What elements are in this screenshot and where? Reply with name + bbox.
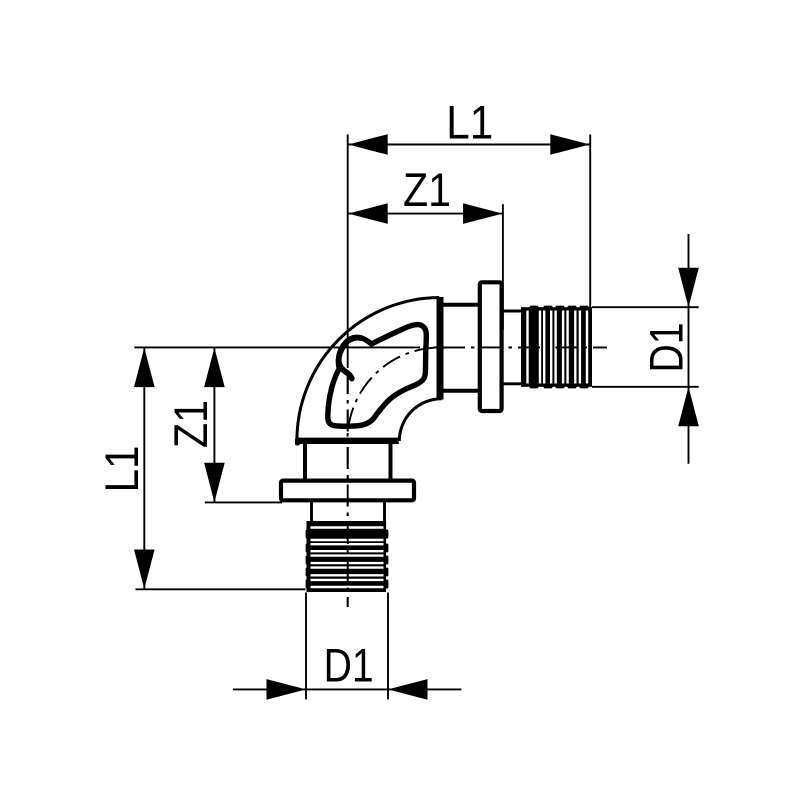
arrowhead Z1 left lower	[204, 463, 225, 503]
right branch neck top edge	[441, 303, 480, 307]
arrowhead L1 top left	[348, 134, 388, 155]
right branch smooth pipe top edge	[502, 310, 524, 313]
arrowhead L1 left upper	[134, 348, 155, 388]
centerline vertical redrawn over spigot slots	[347, 373, 349, 607]
vertical branch ribbed spigot	[306, 521, 389, 592]
arrowhead L1 top right	[550, 134, 590, 155]
vertical branch collar flange	[281, 481, 414, 501]
svg-text:Z1: Z1	[403, 163, 451, 216]
extension line, D1 right upper	[592, 306, 699, 308]
extension line, left (horizontal branch axis)	[134, 346, 420, 348]
centerline, bend axis arc (dash-dot)	[348, 348, 441, 441]
extension line, D1 bottom right	[387, 593, 389, 700]
dimension line Z1 top	[348, 213, 502, 215]
bottom face bar left end nub	[295, 438, 300, 446]
dimension line D1 right with leaders	[688, 234, 690, 464]
arrowhead D1 bottom left (outside)	[267, 679, 307, 700]
body cast recess contour (large)	[328, 325, 427, 427]
elbow body bottom face bar	[296, 438, 399, 444]
centerline, horizontal branch axis (dash-dot)	[426, 346, 607, 348]
vertical branch smooth pipe right edge	[383, 500, 386, 524]
centerline horizontal redrawn over spigot slots	[426, 346, 607, 348]
arrowhead Z1 top right	[463, 203, 503, 224]
extension line, bottom end of left Z1 (collar face)	[205, 501, 282, 503]
arrowhead D1 right upper (outside)	[678, 268, 699, 308]
arrowhead D1 right lower (outside)	[678, 387, 699, 427]
extension line, right end of top Z1 (collar face)	[502, 204, 504, 330]
right branch neck bottom edge	[441, 389, 480, 393]
dimension line Z1 left	[213, 348, 215, 503]
right branch ribbed spigot	[521, 306, 592, 389]
extension line, top left (above vertical branch axis)	[347, 135, 349, 369]
right branch collar flange	[480, 282, 502, 411]
body cast recess contour (small comma)	[339, 338, 361, 379]
extension line, bottom left end of L1 (pipe end)	[136, 588, 306, 590]
dimension line D1 bottom with leaders	[233, 688, 461, 690]
dimension line L1 left	[143, 348, 145, 589]
vertical branch smooth pipe left edge	[310, 500, 313, 524]
arrowhead L1 left lower	[134, 550, 155, 590]
svg-text:Z1: Z1	[164, 400, 217, 448]
elbow body inner corner arc	[399, 399, 441, 441]
elbow body outer arc	[297, 298, 439, 442]
arrowhead D1 bottom right (outside)	[388, 679, 428, 700]
extension line, D1 bottom left	[305, 593, 307, 700]
arrowhead Z1 top left	[348, 203, 388, 224]
svg-text:D1: D1	[324, 639, 374, 692]
svg-text:L1: L1	[446, 95, 493, 148]
extension line, top right end of L1 (pipe end)	[589, 135, 591, 312]
vertical branch neck right edge	[389, 444, 393, 481]
centerline, vertical branch axis (dash-dot)	[347, 373, 349, 607]
right branch smooth pipe bottom edge	[502, 382, 524, 385]
svg-text:L1: L1	[95, 446, 148, 493]
extension line, D1 right lower	[592, 386, 699, 388]
elbow body right face bar	[437, 297, 444, 400]
arrowhead Z1 left upper	[204, 348, 225, 388]
svg-text:D1: D1	[640, 323, 693, 373]
dimension line L1 top	[348, 144, 590, 146]
vertical branch neck left edge	[303, 444, 307, 481]
